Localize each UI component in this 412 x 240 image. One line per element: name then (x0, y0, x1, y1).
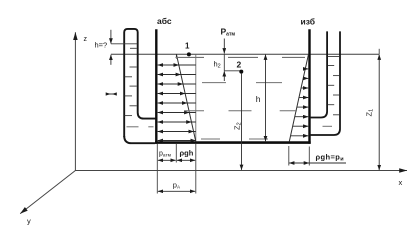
gauge pressure dimension (289, 162, 309, 164)
open piezometer tube (right) (310, 31, 327, 117)
open tube tick 1 (328, 65, 334, 67)
point 1 dot (187, 52, 191, 56)
open tube tick 3 (328, 84, 334, 86)
water dash row1 a (176, 56, 205, 58)
extension line B (p_atm boundary) (175, 144, 177, 163)
closed tube liquid level line (111, 43, 137, 45)
svg-text:z: z (84, 36, 88, 43)
gauge pressure arrow 4 (299, 97, 308, 99)
svg-text:Z1: Z1 (365, 109, 375, 117)
svg-text:ρgh=pи: ρgh=pи (316, 152, 345, 162)
dash between tube and tank wall (148, 126, 153, 128)
water dash row2 a (202, 82, 226, 84)
abs pressure arrow 2 (158, 74, 196, 76)
absolute pressure trapezoid slant (176, 54, 195, 141)
tank left wall (абс) (155, 29, 157, 144)
open tube tick 2 (333, 75, 339, 77)
rho-g-h dimension (177, 159, 195, 161)
svg-text:2: 2 (237, 59, 242, 69)
abs pressure arrowhead at slant 9 (191, 140, 196, 142)
svg-text:ρgh: ρgh (180, 149, 194, 158)
abs pressure arrowhead at slant 5 (182, 102, 187, 104)
abs pressure arrowhead at slant 2 (176, 74, 181, 76)
open tube outer wall (310, 31, 340, 135)
closed tube bottom dash (127, 126, 139, 128)
Z2 dimension line (241, 73, 243, 170)
water dash row1 c (282, 56, 305, 58)
svg-text:x: x (399, 178, 403, 187)
abs pressure arrowhead at slant 7 (187, 121, 192, 123)
vacuum mark line (106, 93, 117, 95)
h=? dimension upper arrow (110, 30, 112, 44)
svg-text:Z2: Z2 (232, 122, 242, 130)
abs pressure arrowhead at slant 4 (180, 93, 185, 95)
svg-text:pатм: pатм (159, 151, 171, 159)
svg-text:pА: pА (173, 180, 181, 189)
vacuum mark right arrowhead (112, 92, 117, 95)
water dash row1 b (228, 56, 258, 58)
abs pressure arrow 6 (158, 112, 196, 114)
closed tube tick 3 (125, 76, 132, 78)
water dash row2 b (256, 82, 282, 84)
gauge pressure arrow 8 (291, 135, 309, 137)
h=? dimension lower arrow (110, 55, 112, 65)
water dash row3 b (229, 110, 252, 112)
Z1 dimension line (378, 55, 380, 171)
closed tube tick 6 (130, 105, 137, 107)
abs pressure arrowhead at slant 1 (174, 64, 179, 66)
z axis (74, 32, 76, 170)
abs pressure arrow 9 (158, 140, 196, 142)
gauge pressure arrow 2 (303, 77, 308, 79)
open tube tick 6 (333, 114, 340, 116)
closed piezometer tube (left, vacuum tube) (124, 29, 156, 137)
p_A dimension (158, 190, 195, 192)
extension line D (triangle base left) (288, 146, 290, 166)
svg-text:Pатм: Pатм (221, 27, 236, 38)
y axis (20, 171, 75, 214)
gauge pressure arrow 1 (305, 68, 308, 70)
open tube bottom dash (323, 125, 333, 127)
abs pressure arrowhead at slant 3 (178, 83, 183, 85)
water dash row3 a (184, 110, 204, 112)
h2 lower arrow (223, 71, 225, 81)
closed tube outer bottom bend (124, 136, 155, 143)
h2 dimension connector line (223, 54, 225, 71)
gauge pressure arrow 3 (301, 87, 308, 89)
gauge pressure arrow 7 (293, 125, 309, 127)
gauge label underline (309, 162, 346, 164)
closed tube tick 5 (125, 95, 132, 97)
abs pressure arrow 5 (158, 102, 196, 104)
svg-text:изб: изб (301, 17, 316, 27)
water dash row4 b (249, 138, 268, 140)
free surface datum line (111, 53, 379, 55)
open tube tick 5 (328, 104, 334, 106)
Z1 extension overshoot (378, 49, 380, 54)
closed tube tick 4 (130, 85, 137, 87)
extension line C (trapezoid base right) (195, 144, 197, 194)
svg-text:y: y (27, 217, 31, 226)
closed tube tick 7 (125, 115, 132, 117)
vacuum mark left arrowhead (106, 92, 111, 95)
svg-text:h: h (256, 94, 261, 104)
h dimension line (265, 55, 267, 142)
gauge pressure arrow 5 (297, 106, 308, 108)
extension line A (left wall base) (156, 144, 158, 194)
water dash row4 a (201, 138, 220, 140)
level-2 line (224, 70, 242, 72)
svg-text:1: 1 (185, 42, 190, 51)
abs pressure arrow 8 (158, 131, 196, 133)
closed tube tick 1 (130, 47, 137, 49)
abs pressure arrow 7 (158, 121, 196, 123)
open tube tick 4 (333, 94, 339, 96)
abs pressure arrowhead at slant 8 (189, 131, 194, 133)
gauge pressure arrow 6 (295, 116, 309, 118)
Pатм pointer arrow (223, 39, 225, 54)
tank right wall (изб) (308, 29, 310, 144)
abs pressure arrowhead at slant 6 (184, 112, 189, 114)
point 2 dot (239, 70, 243, 74)
abs pressure arrow 3 (158, 83, 196, 85)
x axis (75, 170, 407, 172)
water dash row3 c (280, 110, 297, 112)
extension line E (right wall base) (308, 147, 310, 166)
abs pressure arrow 4 (158, 93, 196, 95)
gauge pressure triangle slant (289, 54, 308, 141)
svg-text:h2: h2 (214, 60, 221, 70)
svg-text:абс: абс (157, 16, 172, 26)
p_atm dimension (158, 159, 176, 161)
svg-text:h=?: h=? (95, 41, 108, 50)
trapezoid right edge (195, 54, 197, 141)
trapezoid top corner tick (175, 54, 177, 58)
abs pressure arrow 1 (158, 64, 196, 66)
closed tube tick 2 (130, 66, 137, 68)
tank bottom (155, 141, 311, 144)
open tube liquid level line (328, 56, 340, 58)
